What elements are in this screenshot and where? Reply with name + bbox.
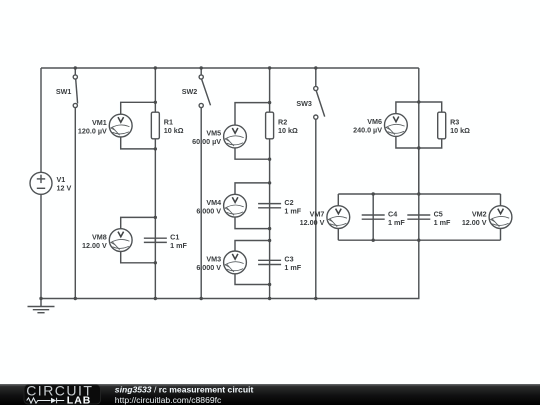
node bottom rail / C3 [268, 297, 271, 300]
svg-text:12.00 V: 12.00 V [462, 218, 487, 227]
svg-text:10 kΩ: 10 kΩ [450, 126, 470, 135]
wire SW3 lower run [315, 119, 317, 299]
footer bar [0, 384, 540, 405]
svg-text:sing3533 / rc measurement circ: sing3533 / rc measurement circuit [115, 385, 254, 395]
capacitor C1 [144, 237, 167, 239]
wire SW1 lower run [74, 108, 76, 299]
capacitor C5 [407, 214, 430, 216]
svg-text:SW2: SW2 [182, 87, 198, 96]
svg-text:120.0 µV: 120.0 µV [78, 126, 107, 135]
wire C4 branch [372, 194, 374, 240]
wire top rail [41, 67, 419, 69]
node row bottom / drop [417, 239, 420, 242]
node row top / drop [417, 192, 420, 195]
voltmeter VM5 [224, 125, 247, 148]
node VM3 top [268, 239, 271, 242]
node bottom rail / SW1 [74, 297, 77, 300]
voltmeter VM2 [489, 206, 512, 229]
wire VM4 top loop [235, 183, 270, 194]
node ground junction [39, 297, 42, 300]
capacitor C4 [362, 214, 385, 216]
node VM4 top [268, 181, 271, 184]
resistor R1 [151, 112, 159, 139]
node top rail / SW2 [200, 66, 203, 69]
svg-text:1 mF: 1 mF [170, 241, 187, 250]
svg-text:SW1: SW1 [56, 87, 72, 96]
node VM1 top [154, 101, 157, 104]
node VM8 top [154, 216, 157, 219]
wire VM3 bottom loop [235, 274, 270, 285]
voltmeter VM7 [327, 206, 350, 229]
svg-text:1 mF: 1 mF [284, 206, 301, 215]
node VM1 bottom [154, 147, 157, 150]
wire R1 to C1 [154, 139, 156, 243]
wire row top rail [338, 193, 500, 195]
svg-text:1 mF: 1 mF [388, 218, 405, 227]
svg-text:12.00 V: 12.00 V [82, 241, 107, 250]
svg-text:SW3: SW3 [296, 99, 312, 108]
wire SW2 lower run [200, 108, 202, 299]
wire VM6 loop bottom [396, 136, 442, 148]
node top rail / SW3 [314, 66, 317, 69]
node bottom rail / SW2 [200, 297, 203, 300]
node VM6 top [417, 100, 420, 103]
wire row bottom rail [338, 239, 500, 241]
svg-text:6.000 V: 6.000 V [196, 206, 221, 215]
ground [40, 299, 42, 307]
node bottom rail / C1 [154, 297, 157, 300]
capacitor C3 [258, 259, 281, 261]
wire VM8 bottom loop [121, 252, 156, 263]
svg-text:240.0 µV: 240.0 µV [353, 126, 382, 135]
wire VM1 top loop [121, 102, 156, 114]
node VM5 bottom [268, 158, 271, 161]
voltmeter VM4 [224, 194, 247, 217]
capacitor C2 [258, 203, 281, 205]
svg-text:60.00 µV: 60.00 µV [192, 137, 221, 146]
wire right drop mid [418, 102, 420, 194]
svg-text:1 mF: 1 mF [434, 218, 451, 227]
wire bottom rail [41, 240, 419, 298]
voltage source V1 [30, 172, 52, 194]
node VM3 bottom [268, 283, 271, 286]
node VM6 bottom [417, 146, 420, 149]
voltmeter VM8 [109, 229, 132, 252]
node bottom rail / SW3 [314, 297, 317, 300]
svg-text:10 kΩ: 10 kΩ [278, 126, 298, 135]
switch SW1 [73, 75, 77, 79]
node top rail / R1 branch [154, 66, 157, 69]
voltmeter VM3 [224, 251, 247, 274]
CircuitLab logo [24, 383, 101, 405]
node VM4 bottom [268, 227, 271, 230]
wire R2 branch upper [269, 68, 271, 112]
resistor R2 [266, 112, 274, 139]
switch SW2 [199, 75, 203, 79]
wire VM4 bottom loop [235, 217, 270, 229]
wire R1 branch upper [154, 68, 156, 112]
wire SW1 upper stub [74, 68, 76, 75]
wire R2 to C3 run [269, 139, 271, 299]
svg-text:1 mF: 1 mF [284, 263, 301, 272]
voltmeter VM6 [385, 114, 408, 137]
wire VM3 top loop [235, 241, 270, 252]
wire SW2 upper stub [200, 68, 202, 75]
resistor R3 [438, 112, 446, 139]
svg-text:6.000 V: 6.000 V [196, 263, 221, 272]
svg-text:12 V: 12 V [57, 184, 72, 193]
wire VM1 bottom loop [121, 137, 156, 149]
wire V1 to bottom rail [40, 194, 42, 298]
wire C1 to bottom rail [154, 238, 156, 298]
wire VM7 stubs [337, 194, 339, 206]
wire VM6 loop top [396, 102, 442, 114]
wire VM5 top loop [235, 103, 270, 126]
node top rail / SW1 [74, 66, 77, 69]
switch SW3 [314, 86, 318, 90]
node VM5 top [268, 101, 271, 104]
svg-text:LAB: LAB [67, 395, 92, 405]
svg-text:http://circuitlab.com/c8869fc: http://circuitlab.com/c8869fc [115, 395, 222, 405]
node row bottom / C4 [372, 239, 375, 242]
wire right drop through C5 [418, 148, 420, 240]
wire VM8 top loop [121, 217, 156, 228]
node top rail / R2 branch [268, 66, 271, 69]
svg-text:10 kΩ: 10 kΩ [164, 126, 184, 135]
wire SW3 upper stub [315, 68, 317, 87]
node VM8 bottom [154, 261, 157, 264]
wire right drop from top rail [418, 68, 420, 102]
node row top / C4 [372, 192, 375, 195]
svg-text:12.00 V: 12.00 V [300, 218, 325, 227]
wire VM2 stubs [500, 194, 502, 206]
wire V1 to top rail [40, 68, 42, 172]
voltmeter VM1 [109, 114, 132, 137]
wire VM5 bottom loop [235, 148, 270, 159]
